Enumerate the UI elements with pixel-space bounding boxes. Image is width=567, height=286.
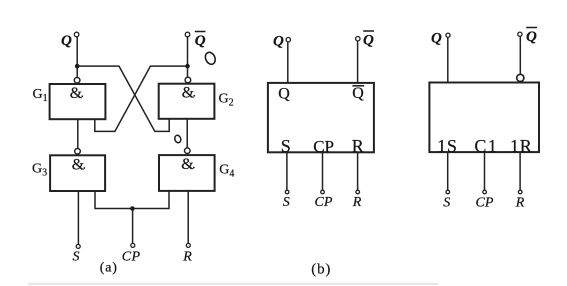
junction node Qbar — [185, 64, 190, 69]
wire CP input — [132, 209, 134, 244]
flip-flop box (right symbol) — [429, 83, 539, 153]
terminal R (part a) — [186, 243, 190, 247]
terminal S (middle symbol) — [285, 190, 289, 194]
wire R input to G4 — [187, 191, 189, 243]
wire Qbar (middle symbol) — [357, 41, 359, 83]
inversion bubble G3 output — [75, 149, 81, 155]
svg-text:&: & — [72, 157, 85, 174]
svg-text:G2: G2 — [219, 92, 234, 109]
svg-text:G3: G3 — [32, 162, 47, 179]
wire G3 output to G1 input — [77, 119, 79, 148]
speck after & in G3 — [83, 167, 85, 169]
junction node CP — [130, 206, 135, 211]
terminal S (right symbol) — [446, 190, 450, 194]
svg-text:R: R — [182, 250, 192, 265]
svg-text:Q: Q — [431, 31, 442, 47]
svg-text:&: & — [181, 156, 194, 173]
svg-text:1R: 1R — [510, 136, 533, 156]
overline of pin Qbar inside (middle symbol) — [352, 85, 364, 87]
svg-text:S: S — [283, 195, 290, 210]
speck after & in G1 — [81, 95, 83, 97]
terminal S (part a) — [76, 244, 80, 248]
terminal Q (middle symbol) — [286, 38, 290, 42]
wire Qbar (right symbol) — [519, 36, 521, 74]
wire S input to G3 — [77, 191, 79, 244]
overline of Qbar (right symbol) — [526, 27, 537, 29]
terminal Qbar (part a) — [185, 32, 190, 37]
svg-text:Q: Q — [273, 34, 284, 50]
inversion bubble G2 output — [185, 77, 191, 83]
terminal CP (middle symbol) — [321, 190, 325, 194]
svg-text:CP: CP — [122, 250, 141, 265]
svg-text:&: & — [70, 85, 83, 102]
terminal Qbar (right symbol) — [518, 32, 522, 36]
wire cross-coupling Q to G2 input — [77, 66, 169, 131]
svg-text:Q: Q — [61, 33, 72, 49]
svg-text:(b): (b) — [311, 262, 331, 278]
wire R (middle symbol) — [357, 152, 359, 190]
wire R (right symbol) — [519, 152, 521, 190]
svg-text:G4: G4 — [219, 163, 234, 180]
terminal CP (right symbol) — [483, 190, 487, 194]
svg-text:CP: CP — [313, 137, 334, 156]
inversion bubble Qbar (right symbol) — [517, 74, 524, 81]
svg-text:Q: Q — [278, 85, 290, 102]
bottom scan smudge — [28, 283, 438, 285]
terminal Qbar (middle symbol) — [356, 37, 360, 41]
terminal CP (part a) — [131, 243, 135, 247]
inversion bubble G4 output — [185, 148, 191, 154]
svg-text:R: R — [352, 195, 362, 210]
wire CP (right symbol) — [484, 152, 486, 190]
wire CP (middle symbol) — [322, 152, 324, 190]
wire S (middle symbol) — [286, 152, 288, 190]
wire CP bus to G3 and G4 — [95, 191, 169, 209]
svg-text:S: S — [73, 250, 80, 265]
terminal R (middle symbol) — [356, 190, 360, 194]
svg-text:S: S — [443, 196, 450, 211]
terminal Q (part a) — [74, 32, 79, 37]
svg-text:&: & — [182, 85, 195, 102]
terminal R (right symbol) — [518, 190, 522, 194]
junction node Q — [75, 64, 80, 69]
wire Q (middle symbol) — [287, 42, 289, 83]
wire S (right symbol) — [447, 152, 449, 190]
wire Qbar to G2 — [187, 37, 189, 77]
svg-text:CP: CP — [476, 196, 494, 211]
svg-text:G1: G1 — [33, 87, 48, 104]
overline of Qbar (part a) — [195, 31, 206, 33]
gate G3 box — [50, 155, 105, 191]
svg-text:Q: Q — [195, 33, 206, 49]
svg-text:CP: CP — [315, 195, 333, 210]
wire Q to G1 — [76, 37, 78, 77]
svg-text:C1: C1 — [474, 136, 498, 156]
scribble artifact o — [174, 134, 182, 143]
svg-text:R: R — [515, 196, 525, 211]
flip-flop box (middle symbol) — [268, 83, 374, 152]
gate G2 box — [159, 84, 215, 119]
speck after & in G4 — [193, 167, 195, 169]
overline of Qbar (middle symbol) — [363, 30, 374, 32]
inversion bubble G1 output — [74, 78, 80, 84]
wire cross-coupling Qbar to G1 input — [95, 66, 188, 131]
svg-text:(a): (a) — [100, 261, 118, 276]
gate G4 box — [159, 155, 215, 191]
terminal Q (right symbol) — [446, 33, 450, 37]
svg-text:Q: Q — [363, 33, 374, 49]
scribble artifact O — [204, 51, 218, 66]
gate G1 box — [50, 84, 106, 119]
svg-text:Q: Q — [526, 29, 537, 45]
wire G4 output to G2 input — [186, 119, 188, 148]
svg-text:Q: Q — [352, 85, 364, 102]
wire Q (right symbol) — [447, 37, 449, 82]
speck after & in G2 — [193, 95, 195, 97]
svg-text:S: S — [281, 136, 291, 156]
